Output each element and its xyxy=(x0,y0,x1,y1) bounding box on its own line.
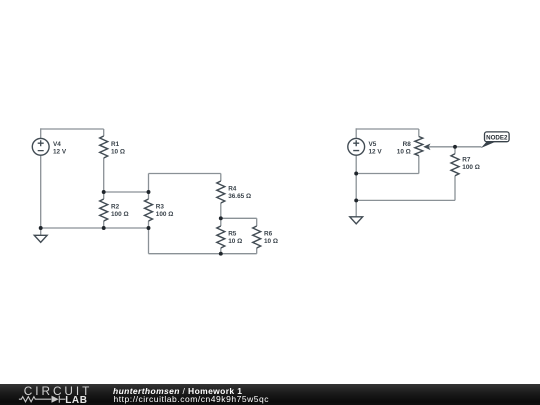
resistor R6 xyxy=(253,226,261,248)
wire V4 top lead xyxy=(40,128,42,138)
wire R8 bottom lead xyxy=(418,156,420,174)
ground (left) xyxy=(34,235,47,242)
resistor R1 xyxy=(100,136,108,158)
wire R7 bottom lead xyxy=(454,176,456,201)
node junction R1/R2 xyxy=(102,190,106,194)
node flag NODE2 xyxy=(481,132,509,148)
svg-text:V4: V4 xyxy=(53,141,61,148)
wire V5 top to R8 top xyxy=(356,128,419,130)
wire node to NODE2 flag xyxy=(455,146,482,148)
voltage source V4 xyxy=(32,138,49,155)
CircuitLab logo xyxy=(0,384,100,405)
svg-text:100 Ω: 100 Ω xyxy=(156,211,174,218)
wire R1 vertical branch xyxy=(103,129,105,136)
resistor R5 xyxy=(217,226,225,248)
svg-text:R7: R7 xyxy=(462,157,471,164)
svg-text:10 Ω: 10 Ω xyxy=(111,148,125,155)
svg-text:V5: V5 xyxy=(369,141,377,148)
wire R8 top lead xyxy=(418,129,420,137)
node junction R4/R5 xyxy=(219,216,223,220)
svg-text:R3: R3 xyxy=(156,204,165,211)
wire R6 top lead xyxy=(256,218,258,226)
node junction V4-R2 rail left xyxy=(39,226,43,230)
wire sub-circuit bottom rail xyxy=(149,253,257,255)
voltage source V5 xyxy=(348,138,365,155)
node junction R3 top xyxy=(147,190,151,194)
wire V5 top lead xyxy=(355,128,357,138)
wire node between R1,R2 to R3 xyxy=(104,191,149,193)
svg-text:R8: R8 xyxy=(403,141,412,148)
wire V4 top to R1 top xyxy=(41,128,104,130)
svg-text:12 V: 12 V xyxy=(53,148,67,155)
svg-text:R6: R6 xyxy=(264,231,273,238)
wire R4 leads xyxy=(220,174,222,182)
wire R2 bottom lead xyxy=(103,221,105,228)
node junction wiper/R7 xyxy=(453,145,457,149)
wire R3 vertical branch xyxy=(148,174,150,200)
node junction R5 bottom xyxy=(219,252,223,256)
svg-text:12 V: 12 V xyxy=(369,148,383,155)
wire wiper to node xyxy=(429,146,455,148)
potentiometer R8 xyxy=(415,137,423,156)
footer bar xyxy=(0,384,540,405)
svg-text:10 Ω: 10 Ω xyxy=(397,148,411,155)
potentiometer R8 wiper arrow xyxy=(423,144,430,151)
resistor R2 xyxy=(100,199,108,221)
wire R6 bottom lead xyxy=(256,248,258,254)
wire sub-circuit top rail xyxy=(149,173,221,175)
svg-text:R2: R2 xyxy=(111,204,120,211)
svg-text:100 Ω: 100 Ω xyxy=(462,164,480,171)
node junction V5/R8 bottom xyxy=(354,172,358,176)
wire mid rail R4 bottom to R6 top xyxy=(221,217,257,219)
wire V4 bottom to ground node xyxy=(40,155,42,235)
wire R7 top lead xyxy=(454,147,456,154)
node junction R3 bottom xyxy=(147,226,151,230)
wire bottom rail V4 to R3 xyxy=(41,227,149,229)
svg-text:R1: R1 xyxy=(111,141,120,148)
wire R5 bottom lead xyxy=(220,248,222,254)
wire bottom rail V5 to R7 xyxy=(356,199,455,201)
svg-text:LAB: LAB xyxy=(65,395,87,405)
svg-text:NODE2: NODE2 xyxy=(486,134,508,141)
node junction V5 lower xyxy=(354,198,358,202)
wire R8 bottom rail to V5 xyxy=(356,173,419,175)
svg-text:36.65 Ω: 36.65 Ω xyxy=(228,193,251,200)
resistor R3 xyxy=(145,199,153,221)
ground (right) xyxy=(350,217,363,224)
svg-text:100 Ω: 100 Ω xyxy=(111,211,129,218)
node junction R2 bottom xyxy=(102,226,106,230)
resistor R4 xyxy=(217,181,225,203)
svg-text:10 Ω: 10 Ω xyxy=(264,238,278,245)
svg-text:R5: R5 xyxy=(228,231,237,238)
resistor R7 xyxy=(451,154,459,176)
svg-text:R4: R4 xyxy=(228,186,237,193)
wire V5 bottom to ground node xyxy=(355,155,357,217)
svg-text:10 Ω: 10 Ω xyxy=(228,238,242,245)
